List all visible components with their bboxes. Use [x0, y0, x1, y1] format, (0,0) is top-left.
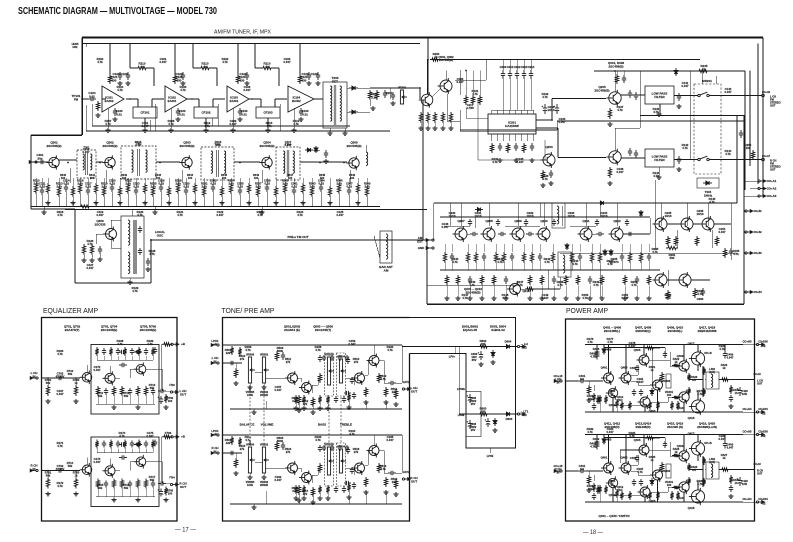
svg-text:CO+H4: CO+H4 — [742, 497, 752, 501]
capacitor C212 pilot filter — [515, 70, 519, 79]
wire collector out L — [146, 368, 162, 370]
svg-text:Q703, Q7042SC1345(E): Q703, Q7042SC1345(E) — [101, 325, 118, 332]
power feedback wire2 — [593, 475, 595, 481]
svg-text:CO+A6: CO+A6 — [762, 91, 771, 94]
volume pot VR502L — [262, 357, 269, 383]
power rail +B L — [585, 344, 743, 346]
wire drop 12 region C — [127, 178, 129, 183]
svg-text:VR504: VR504 — [337, 355, 346, 359]
resistor R241 Q206 emitter — [608, 167, 611, 178]
resistor R2614 audio row — [590, 252, 593, 263]
decoder section border bottom — [427, 303, 744, 305]
transistor Q304 front end — [259, 155, 272, 169]
capacitor C740L output — [158, 389, 166, 393]
svg-text:R1764.7k: R1764.7k — [587, 337, 594, 344]
decoder section border right — [743, 115, 745, 304]
front-end verticals — [69, 168, 71, 183]
transistor Q410L driver — [676, 390, 689, 404]
resistor R2618 audio row — [639, 252, 642, 263]
wire filter CF102 output — [212, 99, 214, 107]
transistor Q405R predriver — [637, 443, 650, 457]
resistor R515L load — [394, 389, 397, 399]
resistor R402L — [595, 350, 598, 360]
svg-text:D603, D604S1B01-02: D603, D604S1B01-02 — [490, 325, 506, 332]
wire eq net stub 4R — [124, 449, 126, 453]
svg-text:CO+18: CO+18 — [753, 464, 761, 466]
svg-text:LRV1: LRV1 — [403, 382, 410, 384]
wire drop 35 region C — [329, 178, 331, 186]
wire drop 26 region C — [248, 178, 250, 183]
svg-text:R1714.7k: R1714.7k — [57, 441, 64, 448]
svg-text:C70247/16V: C70247/16V — [56, 372, 65, 379]
capacitor C132 under amp — [238, 108, 242, 116]
emitter resistor R413L — [687, 387, 690, 395]
supply line MPX upper — [430, 59, 700, 61]
resistor R122 IF bias — [236, 74, 239, 84]
transistor Q206 R-ch emitter follower — [606, 149, 621, 165]
wire stub 2 audio row — [467, 244, 469, 252]
feedback box R — [91, 437, 159, 507]
vertical feed MPX left — [427, 38, 429, 95]
capacitor C123 IF decoupling — [245, 72, 249, 80]
node junction osc out — [150, 239, 152, 241]
wire drop 39 region C — [366, 178, 368, 186]
transistor Q306 local osc — [103, 227, 117, 242]
svg-text:R1564.7k: R1564.7k — [245, 345, 252, 352]
capacitor C124 IF decoupling — [307, 72, 311, 80]
resistor R503R — [275, 441, 278, 451]
resistor R333 bias — [310, 186, 313, 197]
meter network right — [695, 236, 698, 246]
resistor R718L eq network — [151, 347, 154, 356]
power output column — [702, 456, 704, 487]
svg-text:R1474.7k: R1474.7k — [462, 293, 469, 300]
wire Q206 to FL202 — [621, 157, 645, 159]
IC201 pin 11 bottom — [503, 134, 505, 141]
svg-text:D604: D604 — [505, 340, 512, 344]
svg-text:R1204.7k: R1204.7k — [137, 210, 144, 217]
ground stub 10 lower row — [577, 286, 579, 297]
ground IF amp U101 — [107, 108, 109, 128]
terminal R CH FM OUT — [762, 158, 765, 161]
svg-text:Q410: Q410 — [677, 496, 684, 500]
wire osc collector — [110, 220, 112, 228]
emitter resistor R413R — [687, 477, 690, 485]
tone rail res R a — [230, 436, 233, 445]
resistor R277 lower row — [540, 275, 543, 285]
svg-text:C3170.02: C3170.02 — [85, 182, 92, 189]
resistor R453L misc — [656, 401, 659, 410]
wire audio row couple 2 — [498, 232, 506, 236]
wire drop 29 region C — [275, 178, 277, 186]
y71 hang parts — [615, 74, 618, 84]
resistor R324 bias — [229, 183, 232, 194]
terminal R CH OUT tone — [402, 478, 410, 481]
ceramic filter CF103 — [256, 107, 280, 118]
wire stub 12 audio row — [571, 244, 573, 252]
MPX area extra wires — [460, 130, 536, 132]
wire audio row out — [623, 233, 650, 235]
wire tone input L — [223, 362, 243, 364]
ground stub 7 lower row — [541, 286, 543, 297]
terminal CO-B4 — [745, 291, 753, 294]
transistor Q501R tone in — [285, 461, 298, 475]
terminal PHONO R IN — [30, 469, 38, 472]
resistor R507R — [311, 487, 314, 497]
ground stub 3 lower row — [481, 286, 483, 297]
svg-text:CO+A7: CO+A7 — [762, 155, 771, 158]
capacitor C133 under amp — [299, 108, 303, 116]
wire AGC drop a — [85, 105, 87, 131]
audio row supply line — [434, 202, 737, 204]
IC201 pin 8 top — [533, 110, 535, 114]
output resistor R420L — [720, 378, 730, 381]
resistor R716R eq network — [137, 440, 140, 449]
svg-text:Q001, Q0022SC458(B): Q001, Q0022SC458(B) — [438, 55, 454, 62]
osc section border left — [74, 209, 76, 283]
resistor R701L — [46, 385, 49, 396]
svg-text:Q407, Q4082SD346(Q): Q407, Q4082SD346(Q) — [635, 326, 652, 333]
wire to Q205 base — [552, 98, 606, 100]
capacitor C2619 audio row — [647, 253, 651, 261]
resistor R274 lower row — [492, 275, 495, 285]
wire drop 18 region C — [177, 178, 179, 183]
tone caps R a — [318, 445, 322, 452]
resistor R262 audio row — [466, 252, 469, 263]
IC201 pin 14 bottom — [521, 134, 523, 141]
psu tap LP6 — [454, 347, 456, 354]
eq junction dots L — [47, 377, 49, 379]
resistor R451L misc — [628, 401, 631, 410]
resistor R271 lower row — [456, 275, 459, 285]
resistor R312 bias — [126, 183, 129, 194]
svg-text:C1570.047: C1570.047 — [275, 385, 282, 392]
terminal CO-B2 — [745, 231, 753, 234]
wire eq net stub 1R — [103, 449, 105, 453]
diode D302 — [314, 146, 318, 153]
tone block extension border — [410, 318, 516, 449]
wire drop 9 region C — [103, 178, 105, 186]
svg-text:R1134.7k: R1134.7k — [266, 121, 273, 128]
capacitor C278 lower row — [552, 276, 556, 284]
ground osc coil — [127, 280, 132, 284]
svg-text:EQUALIZER AMP: EQUALIZER AMP — [43, 306, 98, 315]
svg-text:Q401: Q401 — [601, 366, 608, 370]
meter resistor network — [666, 236, 669, 246]
svg-text:R1394.7k: R1394.7k — [653, 107, 660, 114]
ground eq box R — [111, 498, 116, 502]
power rail -B R — [585, 501, 743, 503]
svg-text:C1300.01: C1300.01 — [179, 109, 186, 116]
MPX verticals — [459, 70, 461, 95]
svg-text:R CHOUT: R CHOUT — [410, 476, 417, 483]
resistor R321 bias — [202, 186, 205, 197]
capacitor C406L bootstrap — [663, 351, 667, 358]
resistor R2611 audio row — [551, 252, 554, 263]
tone rail L — [223, 344, 403, 346]
svg-text:CF103: CF103 — [263, 110, 272, 114]
wire to Q206 base — [558, 157, 606, 159]
capacitor C221 IC filter — [498, 143, 502, 151]
resistor R712L eq network — [109, 347, 112, 356]
routing vertical F — [654, 180, 656, 250]
wire +B to edge R — [743, 434, 758, 436]
wire rail drop 1 — [465, 71, 467, 96]
IC201 pin 2 top — [497, 110, 499, 114]
low pass filter FL202 — [645, 149, 674, 167]
svg-text:C405: C405 — [630, 456, 637, 460]
svg-text:R1424.7k: R1424.7k — [682, 143, 689, 150]
transistor Q402R current src — [606, 476, 618, 489]
svg-text:R1294.7k: R1294.7k — [132, 286, 139, 293]
ground front-end bus mid — [152, 210, 157, 214]
transistor Q404L VAS — [650, 378, 663, 392]
svg-text:BASS: BASS — [318, 423, 326, 427]
ground stub 14 lower row — [636, 286, 638, 297]
wire stub 8 audio row — [523, 244, 525, 252]
wire eq net stub 1L — [103, 356, 105, 360]
wire feed drop 0 — [148, 67, 154, 69]
svg-text:C1810.047: C1810.047 — [637, 377, 644, 384]
region G supply line y115 — [640, 115, 744, 117]
ground R203 — [440, 126, 445, 130]
osc coil T305 — [121, 216, 144, 278]
svg-text:Q415, Q4162SC495 (R): Q415, Q4162SC495 (R) — [667, 422, 684, 429]
ground osc R342 — [89, 258, 94, 262]
wire diff out R — [631, 464, 638, 466]
IC201 pin 15 bottom — [527, 134, 529, 141]
wire MPX in vertical — [419, 88, 421, 99]
svg-text:R1854.7k: R1854.7k — [697, 479, 704, 486]
transistor Q208 AM/audio — [481, 226, 496, 242]
eq rail caps R — [153, 440, 157, 447]
transistor Q703R — [103, 464, 116, 478]
tuner block border top edge — [82, 37, 763, 39]
tone net caps R — [322, 445, 326, 451]
power wires rails drops — [603, 345, 605, 355]
resistor R240 Q205 emitter — [608, 108, 611, 119]
ground bus eq L — [96, 403, 155, 405]
power wire drivers — [649, 449, 670, 451]
psu diode D602 — [503, 345, 513, 349]
bias resistor R410L — [660, 372, 663, 382]
svg-text:C3230.02: C3230.02 — [133, 182, 140, 189]
zobel R421R — [729, 475, 732, 484]
resistor R311 emitter — [118, 186, 121, 197]
svg-text:−52: −52 — [761, 502, 766, 506]
terminal L CH FM OUT — [762, 94, 765, 97]
wire eq net stub 4L — [124, 356, 126, 360]
transistor Q503L tone amp — [352, 371, 365, 385]
wire stub 5 audio row — [495, 244, 497, 252]
capacitor C734L — [128, 388, 132, 395]
power lower link R — [613, 494, 645, 496]
ground osc R341 — [81, 258, 86, 262]
svg-text:C201: C201 — [386, 91, 393, 95]
resistor R120 IF bias — [108, 74, 111, 84]
wire eq net stub 6R — [138, 449, 140, 453]
capacitor C131 under amp — [176, 108, 180, 116]
eq wire rail R — [160, 437, 162, 444]
psu cap C601 — [478, 351, 484, 360]
capacitor C501L — [228, 361, 236, 365]
wire lamp chain — [667, 279, 677, 281]
resistor R2715 lower row — [647, 275, 650, 285]
power bootstrap wires L — [604, 347, 665, 349]
transistor Q703L — [103, 371, 116, 385]
svg-text:R1244.7k: R1244.7k — [297, 210, 304, 217]
right rail 1 — [744, 71, 746, 190]
resistor R204 buffer bias — [449, 112, 452, 123]
tone ch L out wires — [365, 374, 368, 376]
svg-text:CF102: CF102 — [201, 110, 210, 114]
capacitor C232 under Q203 — [549, 170, 553, 178]
svg-text:C23410/16: C23410/16 — [601, 211, 608, 218]
op-amp U103 IF amplifier — [227, 86, 249, 112]
wire eq net stub 3L — [117, 356, 119, 360]
svg-text:Q406: Q406 — [649, 409, 656, 413]
svg-text:Q401 ~ Q430: Y325YN: Q401 ~ Q430: Y325YN — [598, 514, 629, 518]
tuner block border bottom-left — [31, 208, 75, 210]
svg-text:C1620.047: C1620.047 — [275, 475, 282, 482]
IF stage verticals — [91, 104, 93, 126]
svg-text:OP+B: OP+B — [704, 441, 711, 445]
wire Q205 collector — [614, 71, 616, 92]
resistor R718R eq network — [151, 440, 154, 449]
wire Q301 to T301 — [59, 159, 77, 161]
resistor R336 bias — [337, 183, 340, 194]
resistor R730L — [96, 386, 99, 396]
transistor Q403L diff pair — [619, 371, 632, 385]
wire eq net stub 7R — [145, 449, 147, 453]
tuner block border left lower — [30, 135, 32, 209]
svg-text:R1104.7k: R1104.7k — [293, 119, 300, 126]
psu feed line -B — [459, 413, 517, 415]
resistor R202 det load — [375, 90, 378, 100]
diode D406L — [602, 347, 606, 355]
wire Q504 R collector — [373, 435, 375, 445]
resistor R339 bias — [365, 186, 368, 197]
resistor R714R eq network — [123, 440, 126, 449]
power rail +B R — [585, 434, 743, 436]
transistor Q403R diff pair — [619, 461, 632, 475]
psu cap C607 — [485, 418, 491, 427]
svg-text:LP608: LP608 — [458, 415, 465, 417]
svg-text:C4090.047: C4090.047 — [727, 353, 734, 360]
terminal L CH IN tone — [211, 362, 219, 365]
svg-text:C120: C120 — [311, 72, 318, 76]
wire q213 base — [521, 288, 548, 290]
svg-text:R1364.7k: R1364.7k — [542, 174, 549, 181]
terminal +B eq L — [171, 343, 179, 346]
diode D206 AGC — [609, 249, 613, 256]
svg-text:LP59: LP59 — [487, 454, 494, 458]
svg-text:R1774.7k: R1774.7k — [607, 337, 614, 344]
output inductor L402R — [706, 462, 719, 479]
wire osc to bus — [131, 210, 133, 217]
op-amp U101 IF amplifier — [102, 86, 124, 112]
wire -B to edge R — [743, 501, 758, 503]
wire eq net stub 2L — [110, 356, 112, 360]
terminal +B tone R — [211, 434, 219, 437]
svg-text:Q401: Q401 — [601, 456, 608, 460]
wire feed rise 0 — [130, 67, 136, 69]
transistor Q217 lamp driver — [653, 272, 668, 288]
resistor R112 supply feed — [261, 66, 273, 69]
svg-text:CO+A3: CO+A3 — [767, 194, 777, 198]
wire drop 13 region C — [135, 178, 137, 186]
resistor R263 audio row — [474, 252, 477, 263]
resistor R702L — [74, 385, 77, 396]
svg-text:Q503 ~~ Q5062SC1345(T): Q503 ~~ Q5062SC1345(T) — [313, 325, 333, 332]
resistor R503L — [275, 351, 278, 361]
svg-text:C3380.02: C3380.02 — [264, 179, 271, 186]
svg-text:R1744.7k: R1744.7k — [119, 431, 126, 438]
electrolytic C231 — [554, 104, 560, 114]
capacitor C313 bypass — [134, 187, 138, 195]
power extra parts L — [596, 395, 599, 404]
wire eq net stub 0R — [96, 449, 98, 453]
op-amp U104 IF amplifier — [288, 86, 314, 112]
wire R122 to bus — [237, 44, 239, 75]
power emitter res pair R — [702, 457, 705, 465]
right rail 3 — [757, 44, 759, 185]
svg-text:R1634.7k: R1634.7k — [315, 435, 322, 442]
svg-text:C1410.047: C1410.047 — [682, 81, 689, 88]
power rail -B L — [585, 411, 743, 413]
svg-text:TONE/ PRE AMP: TONE/ PRE AMP — [222, 306, 275, 315]
osc coil core — [133, 220, 135, 274]
svg-text:C3200.02: C3200.02 — [109, 179, 116, 186]
wire AGC drop b — [149, 120, 151, 131]
terminal AM EXT ANT — [426, 239, 434, 242]
capacitor C213 pilot filter — [522, 70, 526, 79]
transistor Q215 meter driver — [679, 216, 694, 232]
resistor R342 osc emitter — [90, 244, 93, 255]
wire drop 37 region C — [348, 178, 350, 186]
capacitor C120 IF decoupling — [118, 72, 122, 80]
resistor R123 IF bias — [298, 74, 301, 84]
svg-text:−52: −52 — [761, 412, 766, 416]
capacitor C341 osc — [98, 246, 102, 254]
svg-text:Q405: Q405 — [634, 348, 641, 352]
cap C409L rail — [723, 351, 727, 359]
svg-text:R1844.7k: R1844.7k — [629, 431, 636, 438]
resistor R323 emitter — [220, 186, 223, 197]
capacitor C720L mid — [119, 363, 127, 367]
svg-text:R2494.7k: R2494.7k — [593, 280, 600, 287]
ground IF amp U104 — [293, 108, 295, 128]
wire drop 22 region C — [212, 178, 214, 183]
wire tone out L — [346, 377, 354, 379]
resistor R507L — [311, 397, 314, 407]
resistor R409L — [645, 346, 655, 349]
svg-text:R1684.7k: R1684.7k — [117, 339, 124, 346]
eq inner extra L — [97, 359, 153, 361]
wire stub 15 audio row — [599, 244, 601, 252]
diode D205 AGC — [603, 249, 607, 256]
ground front-end bus right — [259, 210, 264, 214]
transistor Q502L — [299, 381, 312, 395]
junction MPX feed — [427, 59, 429, 61]
ground stub 11 lower row — [589, 286, 591, 297]
transistor Q410R driver — [676, 480, 689, 494]
svg-text:TREBLE: TREBLE — [340, 423, 352, 427]
tone mid res row L — [294, 395, 297, 404]
capacitor C711R eq network — [102, 441, 106, 448]
capacitor C202 de-emphasis — [391, 92, 395, 100]
svg-text:R3192.2k: R3192.2k — [101, 182, 108, 189]
